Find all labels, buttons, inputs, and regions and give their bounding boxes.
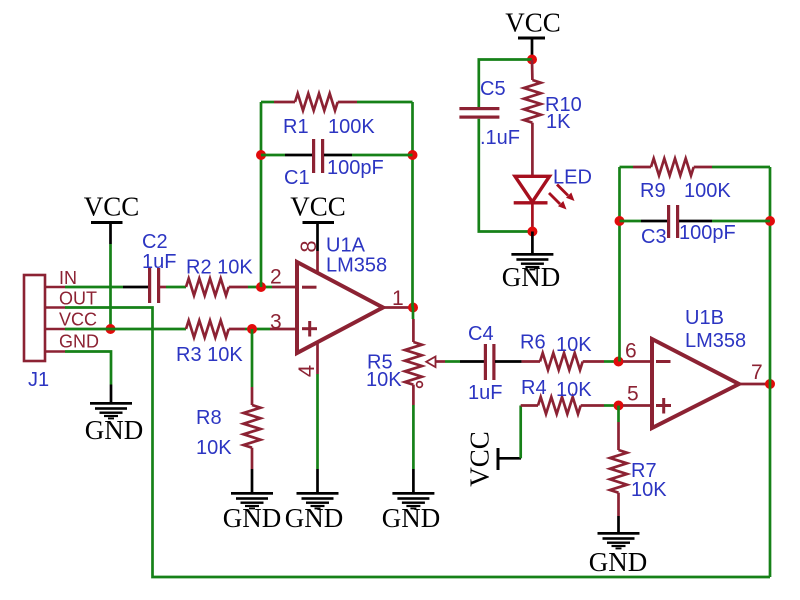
power VCC (R4, rotated) — [465, 431, 522, 487]
pin wire 1 — [383, 306, 410, 309]
ground GND (R8) — [223, 469, 282, 533]
svg-text:GND: GND — [85, 415, 144, 445]
capacitor C4 — [460, 344, 522, 380]
pin wire 3 — [270, 328, 297, 331]
svg-text:2: 2 — [270, 266, 282, 289]
svg-text:IN: IN — [59, 268, 77, 288]
capacitor C1 — [261, 139, 413, 173]
svg-text:1: 1 — [392, 287, 404, 310]
node output U1A junction — [408, 303, 418, 313]
wire R1 top left — [261, 101, 274, 104]
svg-text:VCC: VCC — [465, 431, 495, 487]
node VCC top junction — [527, 55, 537, 65]
power VCC (U1A pin 8) — [290, 192, 346, 252]
svg-text:.1uF: .1uF — [480, 127, 520, 149]
wire feedback right vertical — [411, 102, 414, 308]
svg-text:R1: R1 — [283, 116, 309, 138]
wire pin4 to ground — [316, 374, 319, 469]
svg-text:10K: 10K — [366, 369, 402, 391]
svg-text:GND: GND — [285, 503, 344, 533]
svg-text:10K: 10K — [196, 437, 232, 459]
svg-text:7: 7 — [751, 361, 763, 384]
wire R5 wiper to C4 — [445, 360, 460, 363]
wire OUT net to bottom bus — [65, 308, 770, 578]
svg-text:10K: 10K — [556, 334, 592, 356]
wire feedback left vertical (R9/C3 to pin6) — [618, 167, 621, 362]
svg-text:R6: R6 — [520, 332, 546, 354]
resistor R4 — [521, 397, 604, 414]
svg-text:C3: C3 — [641, 226, 667, 248]
node pin5 junction — [614, 401, 624, 411]
wire R6 to pin6 — [604, 360, 614, 363]
wire feedback left vertical — [260, 102, 263, 287]
svg-text:R8: R8 — [196, 407, 222, 429]
pin wire 2 — [272, 286, 297, 289]
wire J1-GND to ground — [65, 352, 111, 385]
node C1 left junction — [256, 150, 266, 160]
svg-text:10K: 10K — [631, 479, 667, 501]
svg-text:C5: C5 — [480, 78, 506, 100]
node C1 right junction — [408, 150, 418, 160]
svg-text:VCC: VCC — [59, 310, 97, 330]
svg-text:GND: GND — [589, 547, 648, 577]
svg-text:4: 4 — [294, 365, 319, 377]
node LED cathode junction — [527, 227, 537, 237]
svg-text:C2: C2 — [142, 231, 168, 253]
ground GND (LED) — [502, 232, 561, 293]
svg-text:R3 10K: R3 10K — [176, 344, 243, 366]
resistor R6 — [522, 353, 604, 370]
wire R3 to pin3 — [245, 328, 270, 331]
resistor R3 — [186, 321, 245, 338]
resistor R10 — [524, 60, 541, 177]
svg-text:VCC: VCC — [84, 192, 140, 222]
wire VCC to R4 — [519, 406, 522, 459]
svg-text:100pF: 100pF — [679, 222, 736, 244]
wire R4 to pin5 — [604, 404, 614, 407]
resistor R2 — [186, 279, 248, 296]
svg-text:LED: LED — [553, 167, 592, 189]
wire C5 to LED cathode — [479, 119, 528, 232]
wire R9 top right — [712, 166, 770, 169]
capacitor C2 — [123, 268, 166, 303]
capacitor C5 — [459, 107, 499, 119]
node output U1B junction — [765, 379, 775, 389]
svg-text:VCC: VCC — [505, 8, 561, 38]
node pin3 junction — [247, 324, 257, 334]
ground GND (R5) — [382, 469, 441, 533]
svg-text:100K: 100K — [328, 116, 375, 138]
svg-text:10K: 10K — [556, 379, 592, 401]
svg-text:1uF: 1uF — [142, 251, 176, 273]
wire R2 to pin2 — [248, 286, 272, 289]
potentiometer R5 — [405, 308, 445, 406]
LED D1 — [514, 176, 575, 227]
power VCC (left) — [84, 192, 140, 245]
wire R1 top right — [357, 101, 413, 104]
svg-text:5: 5 — [627, 383, 639, 406]
resistor R9 — [633, 159, 712, 176]
ground GND (R7) — [589, 516, 648, 577]
wire IN net — [65, 286, 123, 289]
svg-text:GND: GND — [382, 503, 441, 533]
svg-text:100K: 100K — [684, 180, 731, 202]
resistor R1 — [274, 94, 357, 111]
svg-text:R9: R9 — [640, 180, 666, 202]
ground GND (U1A pin4) — [285, 469, 344, 533]
svg-text:R2 10K: R2 10K — [186, 257, 253, 279]
op-amp U1A — [297, 262, 383, 353]
wire right bus (feedback to J1 OUT) — [769, 167, 772, 577]
node C3 right junction — [765, 216, 775, 226]
svg-text:VCC: VCC — [290, 192, 346, 222]
svg-text:R4: R4 — [521, 377, 547, 399]
svg-text:C4: C4 — [468, 323, 494, 345]
svg-text:8: 8 — [296, 240, 321, 252]
svg-text:GND: GND — [223, 503, 282, 533]
wire R9 top left — [620, 166, 634, 169]
wire pin5 to R7 — [617, 406, 620, 423]
capacitor C3 — [620, 205, 771, 238]
svg-text:GND: GND — [59, 332, 99, 352]
pin wire 7 — [739, 383, 766, 386]
op-amp U1B — [652, 339, 739, 428]
ground GND (under J1) — [85, 385, 144, 446]
node J1-VCC junction — [106, 324, 116, 334]
svg-text:1uF: 1uF — [468, 382, 502, 404]
svg-text:LM358: LM358 — [685, 330, 746, 352]
wire VCC row to R3 — [65, 328, 186, 331]
pin wire 6 — [623, 360, 652, 363]
connector J1 — [24, 275, 65, 361]
node pin2 junction — [256, 282, 266, 292]
wire C2 to R2 — [166, 286, 186, 289]
svg-text:GND: GND — [502, 262, 561, 292]
svg-text:C1: C1 — [284, 167, 310, 189]
svg-text:U1A: U1A — [326, 235, 366, 257]
pin wire 4 — [316, 341, 319, 374]
node pin6 junction — [614, 357, 624, 367]
svg-text:100pF: 100pF — [327, 157, 384, 179]
svg-text:OUT: OUT — [59, 289, 97, 309]
svg-text:J1: J1 — [28, 369, 49, 391]
power VCC (top) — [505, 8, 561, 56]
svg-text:U1B: U1B — [685, 307, 724, 329]
node C3 left junction — [615, 216, 625, 226]
wire R5 to ground — [412, 405, 415, 469]
resistor R7 — [610, 422, 627, 516]
pin wire 8 — [316, 251, 319, 273]
svg-text:1K: 1K — [546, 111, 571, 133]
wire pin3 node to R8 — [251, 329, 254, 387]
svg-text:6: 6 — [625, 340, 637, 363]
wire VCC to J1 — [109, 244, 112, 329]
wire VCC to C5 — [479, 60, 532, 108]
svg-text:LM358: LM358 — [326, 255, 387, 277]
resistor R8 — [244, 387, 261, 469]
pin wire 5 — [623, 404, 652, 407]
